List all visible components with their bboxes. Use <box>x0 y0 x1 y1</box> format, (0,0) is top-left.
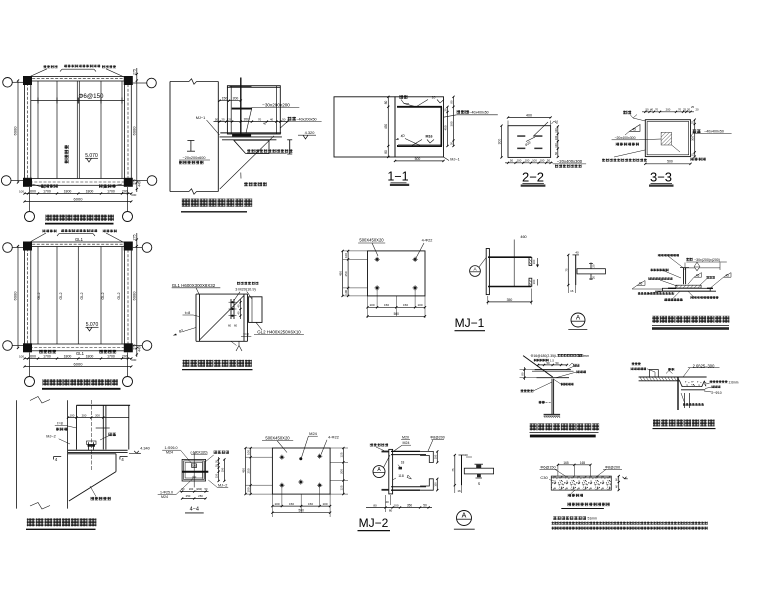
plan2 axis bubbles bottom <box>25 377 35 387</box>
svg-text:70: 70 <box>258 118 262 122</box>
detA1 top tick <box>573 254 580 256</box>
plate2 center bolt dot <box>299 457 302 460</box>
svg-text:1-Φ26.0: 1-Φ26.0 <box>164 446 177 450</box>
hinge bolt assembly <box>88 445 96 447</box>
svg-text:16: 16 <box>457 489 461 493</box>
svg-text:75: 75 <box>564 268 568 272</box>
hinge title <box>27 518 35 526</box>
plan1 top leader text weld <box>44 65 47 68</box>
svg-text:4.320: 4.320 <box>305 130 316 135</box>
ptfe label hook bolt <box>706 276 709 279</box>
plan1 corner columns <box>23 76 32 85</box>
svg-text:100: 100 <box>344 253 348 258</box>
slide label weld strip <box>288 117 292 121</box>
slide leader to corbel <box>220 136 274 189</box>
mj2 label left grout <box>370 443 373 446</box>
svg-text:200: 200 <box>189 487 194 491</box>
svg-text:M5: M5 <box>192 464 196 468</box>
svg-text:25: 25 <box>691 153 695 157</box>
svg-text:GL2: GL2 <box>117 292 121 299</box>
mj2 bottom hook right <box>420 479 433 490</box>
svg-text:50: 50 <box>510 159 514 163</box>
svg-text:t=8: t=8 <box>185 311 190 315</box>
svg-text:100: 100 <box>344 289 348 294</box>
plan2 wall dashed line <box>28 244 128 347</box>
svg-text:190: 190 <box>220 467 224 472</box>
deck left step <box>649 370 658 378</box>
svg-text:Φ16@180(2.35)L: Φ16@180(2.35)L <box>531 354 557 358</box>
svg-text:3−3: 3−3 <box>650 170 672 185</box>
s33 outer rect <box>645 120 690 157</box>
svg-text:600: 600 <box>30 354 36 358</box>
s11 concrete body rect <box>334 97 395 157</box>
svg-text:275: 275 <box>133 235 137 241</box>
mj2 circle A <box>373 466 385 478</box>
plate2 holes cross marks <box>279 456 284 458</box>
svg-text:−40x200x50: −40x200x50 <box>296 117 316 121</box>
svg-text:20: 20 <box>695 108 699 112</box>
svg-text:100: 100 <box>433 454 437 459</box>
svg-text:250: 250 <box>247 468 251 473</box>
svg-text:100: 100 <box>532 259 536 264</box>
s44 inner rect <box>184 461 205 480</box>
svg-text:500: 500 <box>415 157 421 161</box>
hinge label weld <box>108 433 111 436</box>
svg-text:350: 350 <box>407 503 413 507</box>
deck title <box>653 419 660 426</box>
hinge beam top line <box>77 404 131 406</box>
svg-text:300: 300 <box>691 136 695 141</box>
s33 leader from pad <box>672 145 680 152</box>
svg-text:250: 250 <box>186 494 191 498</box>
ptfe upper plate hatched <box>676 285 701 288</box>
svg-text:6000: 6000 <box>13 126 18 136</box>
slide bearing pad black <box>232 134 251 137</box>
svg-text:60: 60 <box>234 323 238 327</box>
slab right dims <box>618 476 620 490</box>
svg-text:−20x200x600: −20x200x600 <box>183 156 206 160</box>
ptfe bottom line <box>655 290 716 292</box>
slide wall right line <box>217 82 219 192</box>
plate2 left dim chain <box>250 448 252 494</box>
joint title <box>183 360 190 367</box>
svg-text:50: 50 <box>282 118 286 122</box>
svg-text:350: 350 <box>507 298 513 302</box>
svg-text:GL1: GL1 <box>76 351 85 356</box>
svg-text:100: 100 <box>554 128 558 133</box>
svg-text:250: 250 <box>198 494 203 498</box>
svg-text:440: 440 <box>138 181 142 187</box>
svg-text:50: 50 <box>645 108 649 112</box>
svg-text:80: 80 <box>521 372 525 376</box>
slide top dim 150 200 <box>220 100 241 102</box>
svg-text:100: 100 <box>532 279 536 284</box>
slide corbel nib <box>234 139 269 141</box>
s22 small note under <box>555 165 558 168</box>
slide wall break bottom <box>170 191 189 193</box>
svg-text:4-Φ22: 4-Φ22 <box>328 436 339 440</box>
hinge stiffener mid line <box>96 427 110 429</box>
ptfe label beam flange <box>651 269 654 272</box>
slide beam box top inner line <box>227 86 280 88</box>
mj2 left anchor bolts <box>382 451 389 453</box>
detA2 circle A <box>457 511 472 526</box>
svg-text:125: 125 <box>339 485 343 490</box>
svg-text:4.340: 4.340 <box>140 447 150 451</box>
svg-text:1800: 1800 <box>86 354 94 358</box>
svg-text:16: 16 <box>555 119 559 123</box>
hinge label stiffener <box>56 428 59 431</box>
plan1 inner beam edge <box>31 81 125 179</box>
ptfe label ptfe board <box>664 298 667 301</box>
svg-text:390: 390 <box>450 121 454 126</box>
slide center tiny note <box>247 149 250 152</box>
joint bolts <box>231 301 233 303</box>
slide right steel symbol <box>289 140 291 154</box>
svg-text:150: 150 <box>384 303 389 307</box>
plan2 bottom weld note <box>39 350 43 354</box>
plate2 total 450 <box>245 448 247 494</box>
mj2 bottom bars <box>391 486 426 488</box>
slide wall left line <box>169 82 171 192</box>
plan2 right dims <box>136 233 138 357</box>
svg-text:50: 50 <box>555 361 559 365</box>
plan2 top left weld note <box>43 230 46 233</box>
slide beam web thick line <box>240 78 242 135</box>
svg-text:500X450X20: 500X450X20 <box>265 435 290 440</box>
mj2 bottom dims row <box>366 507 432 509</box>
s44 inner rect 2 <box>185 462 203 478</box>
svg-text:100: 100 <box>532 159 537 163</box>
notes line1 <box>553 516 556 519</box>
slide title <box>182 199 190 207</box>
mj1 anchor plate <box>486 249 489 295</box>
s33 right dim chain <box>694 120 696 157</box>
slab concrete body <box>551 476 611 490</box>
detA2 stem line <box>461 455 463 485</box>
ptfe small pads <box>668 287 676 289</box>
svg-text:450: 450 <box>242 468 246 473</box>
stair hatch marks on flange <box>544 416 546 418</box>
svg-text:6000: 6000 <box>132 291 137 301</box>
deck hanger rods <box>684 393 686 408</box>
hinge dims 100 200 200 <box>68 417 129 419</box>
detA2 underline <box>454 528 475 530</box>
svg-text:120: 120 <box>227 118 232 122</box>
s22 bottom dim row <box>505 162 553 164</box>
joint end plate <box>230 299 232 319</box>
svg-text:100: 100 <box>393 503 398 507</box>
hinge base plate lines <box>68 449 128 451</box>
svg-text:80: 80 <box>389 509 393 513</box>
svg-text:C30: C30 <box>540 475 548 480</box>
svg-text:200: 200 <box>233 97 239 101</box>
svg-text:200: 200 <box>122 354 128 358</box>
svg-text:500X450X20: 500X450X20 <box>359 238 384 243</box>
svg-text:20: 20 <box>592 264 596 268</box>
ptfe lower plate <box>662 288 710 291</box>
svg-text:100: 100 <box>19 354 24 358</box>
svg-text:40: 40 <box>237 311 241 315</box>
plan1 axis bubbles bottom <box>25 212 35 222</box>
svg-text:600: 600 <box>30 189 36 193</box>
svg-text:100: 100 <box>554 135 558 140</box>
svg-text:80: 80 <box>384 150 388 154</box>
mj2 hook dims <box>436 451 438 462</box>
svg-text:Φ6@150: Φ6@150 <box>79 93 105 100</box>
svg-text:MJ−2: MJ−2 <box>46 435 55 439</box>
svg-text:M24: M24 <box>309 431 318 436</box>
hinge wall left line <box>16 400 18 508</box>
hinge corbel outline <box>68 453 116 455</box>
detA1 plate bar <box>577 269 605 274</box>
plan1 weld note left bottom <box>41 184 45 188</box>
svg-text:M16: M16 <box>426 135 433 139</box>
svg-text:450: 450 <box>384 124 388 130</box>
svg-text:150: 150 <box>222 97 228 101</box>
ptfe title <box>652 316 659 323</box>
svg-text:GL2 H400X250X6X10: GL2 H400X250X6X10 <box>257 330 301 335</box>
hinge wall break top <box>30 397 50 404</box>
s33 label angle top left <box>623 111 627 115</box>
svg-text:80: 80 <box>373 503 377 507</box>
svg-text:450: 450 <box>444 125 448 130</box>
stair beam bottom flange <box>544 413 561 415</box>
plan1 top center note <box>64 65 67 68</box>
joint main beam top bottom <box>196 293 248 295</box>
svg-text:2−Φ10: 2−Φ10 <box>711 391 721 395</box>
svg-text:16: 16 <box>570 289 574 293</box>
svg-text:200: 200 <box>666 108 671 112</box>
detA2 top dim 40 <box>459 454 465 456</box>
plan2 bottom slide note <box>99 350 103 354</box>
svg-text:25: 25 <box>221 118 225 122</box>
stair label beam <box>539 401 542 404</box>
detA2 bolt bottom <box>477 474 481 477</box>
joint bolt dim ticks <box>240 299 242 319</box>
svg-text:100mm: 100mm <box>578 354 589 358</box>
plan1 bottom dim row2 6000 <box>25 201 132 203</box>
svg-text:1700: 1700 <box>107 189 115 193</box>
svg-text:−30x200x200: −30x200x200 <box>262 102 290 107</box>
detA1 underline <box>568 329 587 331</box>
slab label deck sheet <box>568 494 571 497</box>
hinge corbel leader <box>90 486 96 497</box>
s44 outer rect <box>182 459 206 481</box>
svg-text:100: 100 <box>19 189 24 193</box>
svg-text:25: 25 <box>691 105 695 109</box>
ptfe label ptfe pad <box>648 277 651 280</box>
deck label surplus <box>668 368 671 371</box>
svg-text:t=8: t=8 <box>243 333 248 337</box>
plan1 vertical slab label <box>65 145 69 149</box>
svg-text:460: 460 <box>520 235 526 239</box>
s44 right hatch band <box>201 461 205 480</box>
svg-text:1−1: 1−1 <box>387 170 408 184</box>
svg-text:1700: 1700 <box>107 354 115 358</box>
s11 bottom plate thick <box>397 145 442 147</box>
svg-text:20: 20 <box>477 482 481 486</box>
deck label channel2 <box>631 367 634 370</box>
detA2 plate bar <box>464 468 493 474</box>
svg-text:40: 40 <box>270 118 274 122</box>
joint main beam flange left <box>195 294 197 341</box>
svg-text:(290): (290) <box>196 487 202 491</box>
plate2 right dim chain <box>342 448 344 494</box>
plan1 wall dashed line <box>28 79 128 182</box>
svg-text:600: 600 <box>131 358 136 362</box>
slab title <box>568 503 572 507</box>
svg-text:100: 100 <box>70 413 75 417</box>
svg-text:1800: 1800 <box>86 189 94 193</box>
svg-text:50: 50 <box>554 152 558 155</box>
svg-text:GL2: GL2 <box>59 292 63 299</box>
slide left elevation mark <box>187 140 194 142</box>
slab top second line <box>551 477 611 479</box>
plan2 top center note <box>61 229 64 232</box>
svg-text:1.5: 1.5 <box>550 359 555 363</box>
svg-text:60: 60 <box>228 323 232 327</box>
deck label weld right <box>710 380 713 383</box>
svg-text:100: 100 <box>540 159 545 163</box>
svg-text:150: 150 <box>289 502 294 506</box>
svg-text:1-Φ25.0: 1-Φ25.0 <box>160 491 173 495</box>
deck hatch under slab <box>640 377 642 380</box>
svg-text:=−40x400x50: =−40x400x50 <box>467 111 488 115</box>
joint diagonal stiffener <box>200 296 245 341</box>
svg-text:20: 20 <box>592 276 596 280</box>
s11 label weld strip right <box>457 110 461 114</box>
svg-text:−20x400x300: −20x400x300 <box>614 136 635 140</box>
svg-text:150: 150 <box>308 502 313 506</box>
s44 center vertical <box>193 452 195 487</box>
svg-text:40: 40 <box>237 304 241 308</box>
svg-text:GL1 H600X300X8X32: GL1 H600X300X8X32 <box>172 283 216 288</box>
s11 right dim chain <box>447 107 449 146</box>
stair left dims <box>524 367 526 380</box>
deck label spot weld <box>712 385 715 388</box>
svg-text:M24: M24 <box>161 495 168 499</box>
ptfe label top stiffener <box>658 254 661 257</box>
slide mid dim row <box>214 121 288 123</box>
hinge beam verticals <box>76 405 78 449</box>
svg-text:200: 200 <box>122 189 128 193</box>
deck profile channel <box>680 381 705 387</box>
svg-text:40: 40 <box>650 108 654 112</box>
s44 bolt box top <box>192 464 197 468</box>
slide flange plate thick bar <box>232 108 252 110</box>
slide beam inner flange lines <box>230 86 232 134</box>
svg-text:1700: 1700 <box>43 354 51 358</box>
svg-text:150: 150 <box>215 473 219 478</box>
svg-text:A: A <box>462 513 467 520</box>
plan1 right dims <box>136 68 138 192</box>
s11 right plate thick <box>440 107 442 146</box>
s22 plate rect <box>508 126 551 158</box>
svg-text:100: 100 <box>369 303 374 307</box>
mj1 bottom bar thick <box>488 286 531 288</box>
s33 left small note <box>616 143 619 146</box>
ptfe top dim line with break <box>685 267 695 269</box>
svg-text:A: A <box>576 315 581 322</box>
svg-text:275: 275 <box>133 69 137 75</box>
plate1 rect <box>368 251 426 296</box>
notes line3 <box>552 527 555 530</box>
slide label concrete corbel <box>244 182 248 186</box>
detA1 circle A <box>571 313 585 327</box>
stair slab bottom line <box>537 377 570 379</box>
hinge wall right line <box>67 400 69 508</box>
svg-text:500: 500 <box>667 160 673 164</box>
s22 dim 400 top <box>508 117 551 119</box>
slide beam box <box>227 86 280 134</box>
svg-text:25: 25 <box>691 121 695 125</box>
svg-text:50: 50 <box>423 503 427 507</box>
detA1 stem line <box>575 255 577 285</box>
plan1 axis bubbles right <box>147 78 157 88</box>
svg-text:1700: 1700 <box>43 189 51 193</box>
mj2 anchor plate <box>389 449 393 494</box>
s33 label weld right <box>693 129 697 133</box>
slide wall break top <box>170 81 189 83</box>
svg-text:500: 500 <box>394 312 400 316</box>
svg-text:MJ−1: MJ−1 <box>196 115 206 120</box>
plate1 bottom dim chain <box>368 306 426 308</box>
slide bearing top plate <box>220 132 281 134</box>
svg-text:Φ8@200: Φ8@200 <box>430 436 445 440</box>
svg-text:100: 100 <box>247 487 251 492</box>
svg-text:Φ8@200: Φ8@200 <box>605 465 620 469</box>
plate1 left dim chain <box>347 251 349 296</box>
s33 inner rect <box>647 122 689 155</box>
plan1 axis bubbles left <box>3 78 13 88</box>
svg-text:100: 100 <box>322 502 327 506</box>
svg-text:250: 250 <box>344 271 348 276</box>
stair label left note <box>521 389 524 392</box>
plan2 left dim 6000 <box>17 246 19 348</box>
svg-text:M24: M24 <box>403 441 410 445</box>
plan1 left dim 6000 <box>17 81 19 183</box>
svg-text:100: 100 <box>525 159 530 163</box>
svg-text:100: 100 <box>517 159 522 163</box>
svg-text:51mm: 51mm <box>588 517 598 521</box>
ptfe label cast concrete <box>691 296 694 299</box>
svg-text:t=8: t=8 <box>57 421 62 425</box>
svg-text:4-Φ22: 4-Φ22 <box>422 239 433 243</box>
svg-text:MJ−1: MJ−1 <box>455 316 485 330</box>
svg-text:MJ−2: MJ−2 <box>218 483 227 487</box>
svg-text:4−4: 4−4 <box>190 507 199 513</box>
svg-text:2−2: 2−2 <box>522 170 544 185</box>
svg-text:−40x400x50: −40x400x50 <box>704 130 724 134</box>
detA2 left dim <box>454 455 456 485</box>
svg-text:M20: M20 <box>402 436 409 440</box>
svg-text:GL2: GL2 <box>37 292 41 299</box>
svg-text:6000: 6000 <box>74 196 84 201</box>
svg-text:6000: 6000 <box>132 126 137 136</box>
svg-text:275: 275 <box>133 344 137 350</box>
svg-text:100: 100 <box>247 450 251 455</box>
svg-text:(-180X320): (-180X320) <box>191 450 208 454</box>
joint secondary beam GL2 outline <box>249 297 262 323</box>
hinge beam center dashed <box>90 400 92 470</box>
s22 dim 300 left <box>501 126 503 158</box>
hinge label concrete corbel <box>91 497 94 500</box>
svg-text:80: 80 <box>384 101 388 105</box>
mj1 top hook <box>529 258 532 266</box>
s33 hook note bottom right <box>691 158 694 161</box>
plate1 holes cross marks <box>375 258 380 260</box>
